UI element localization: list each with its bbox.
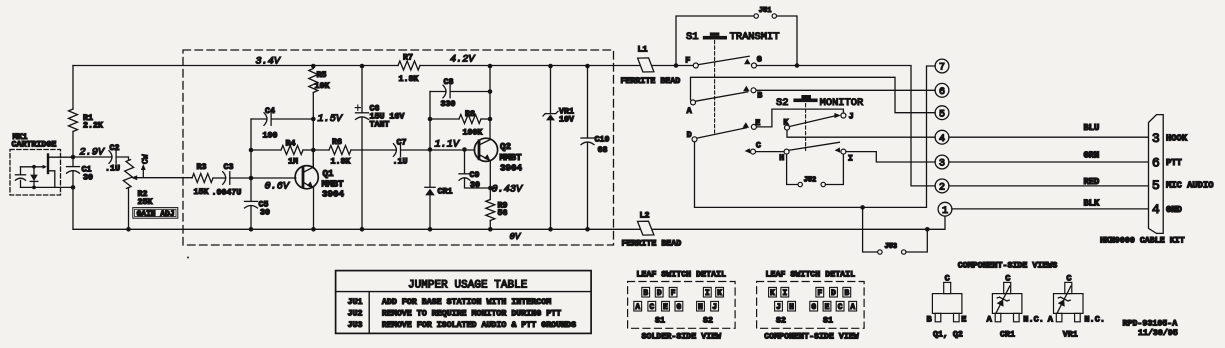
junction: R2 bottom on 0V rail — [126, 227, 131, 232]
capacitor C6 (+ polarity mark) — [356, 112, 369, 114]
svg-text:LEAF SWITCH DETAIL: LEAF SWITCH DETAIL — [636, 270, 726, 279]
junction: diode bottom inside MK1 — [32, 186, 36, 190]
junction: Q1 base node — [249, 176, 254, 181]
wire: vertical branch with R1/C1 from rail to 0V — [72, 66, 74, 230]
svg-text:J: J — [712, 304, 717, 312]
svg-text:Q2: Q2 — [500, 141, 511, 152]
svg-text:3: 3 — [939, 159, 945, 170]
svg-text:2: 2 — [939, 183, 945, 194]
wire: I to pad 3 / PTT — [846, 152, 935, 162]
svg-text:GND: GND — [1166, 205, 1182, 215]
junction: C6 bottom on rail — [360, 227, 365, 232]
svg-text:C10: C10 — [595, 136, 610, 145]
svg-text:F: F — [817, 290, 822, 298]
svg-text:3904: 3904 — [322, 189, 345, 200]
junction: CR1 bottom on 0V rail — [428, 227, 433, 232]
capacitor C1 — [67, 166, 80, 168]
svg-text:.1U: .1U — [105, 165, 120, 174]
svg-text:G: G — [677, 304, 682, 312]
svg-text:TRANSMIT: TRANSMIT — [730, 31, 780, 43]
svg-text:S2: S2 — [776, 317, 786, 326]
wire: cartridge internal top bus — [21, 166, 44, 168]
wire: R3 to C3 — [213, 177, 225, 179]
R2 CW direction arrow — [142, 167, 144, 177]
package view Q1,Q2 (SOT-23) — [932, 294, 962, 314]
svg-text:1.8K: 1.8K — [399, 75, 419, 84]
potentiometer R2 — [122, 159, 134, 189]
svg-text:330: 330 — [441, 100, 456, 109]
wire: Q2 collector vertical to 4.2V rail — [489, 66, 491, 140]
wire: Q1 emitter to 0V rail — [313, 188, 315, 230]
svg-text:.0047U: .0047U — [212, 189, 242, 198]
svg-text:RPD-93105-A: RPD-93105-A — [1123, 319, 1178, 328]
wire: C9 branch from base node — [465, 150, 491, 189]
wire: pad 2 to connector pin 5 (RED) — [949, 185, 1148, 187]
svg-text:Q1, Q2: Q1, Q2 — [933, 330, 963, 339]
wire: C4 right lead to 1.5V collector node — [271, 118, 313, 120]
wire: C7 to Q2 base — [401, 149, 475, 151]
svg-text:K: K — [717, 290, 722, 298]
svg-text:SOLDER-SIDE VIEW: SOLDER-SIDE VIEW — [642, 332, 722, 341]
capacitor C8 — [443, 85, 446, 98]
svg-text:1.8K: 1.8K — [331, 158, 351, 167]
svg-text:N.C.: N.C. — [1084, 314, 1105, 324]
pad 2 (circled) — [935, 179, 949, 193]
svg-text:JU1: JU1 — [759, 7, 772, 15]
component-side pin letters row 2 — [775, 301, 783, 311]
svg-text:.1U: .1U — [393, 158, 408, 167]
jumper usage table header separator — [336, 291, 591, 293]
svg-text:11/30/95: 11/30/95 — [1138, 328, 1178, 338]
wire: C to H — [756, 151, 784, 153]
junction: R4/R6 collector node — [311, 148, 316, 153]
contact E of S1 with arrow — [743, 122, 750, 128]
svg-text:S1: S1 — [686, 31, 698, 43]
svg-text:JUMPER USAGE TABLE: JUMPER USAGE TABLE — [408, 279, 527, 291]
capacitor C9 — [459, 173, 470, 175]
capacitor C3 — [223, 172, 226, 185]
transistor Q1 — [295, 166, 318, 189]
svg-text:CARTRIDGE: CARTRIDGE — [12, 141, 57, 150]
svg-text:3: 3 — [1152, 131, 1160, 146]
wire: C8 right lead — [450, 91, 490, 93]
svg-text:1: 1 — [942, 206, 948, 217]
wire: JU3 right leg to 0V rail — [906, 229, 927, 252]
svg-text:JU3: JU3 — [348, 321, 363, 330]
svg-text:G: G — [811, 304, 816, 312]
svg-text:5: 5 — [939, 109, 945, 120]
svg-text:C2: C2 — [110, 144, 120, 153]
svg-text:30: 30 — [260, 209, 270, 218]
S2 actuator dashed line — [805, 104, 807, 151]
contact F of S1 — [693, 63, 698, 68]
jumper usage table outer box — [336, 271, 591, 334]
package view VR1 (SOT-23 zener) — [1054, 294, 1084, 314]
wire: R8 left lead — [430, 118, 459, 120]
svg-text:S1: S1 — [655, 317, 665, 326]
svg-text:R5: R5 — [317, 71, 327, 80]
svg-text:G: G — [757, 55, 762, 65]
leaf switch detail dashed box (solder side) — [628, 282, 736, 329]
wire: C4 left lead — [251, 118, 267, 120]
jumper JU1 — [754, 14, 758, 18]
svg-text:J: J — [849, 112, 854, 122]
wire: R4 right lead — [303, 149, 313, 151]
contact J of S2 with arrow — [834, 113, 840, 118]
junction: Q2 emitter / C9 / R9 node — [488, 186, 493, 191]
diode CR1 — [425, 186, 435, 188]
svg-text:CR1: CR1 — [438, 187, 453, 196]
svg-text:HOOK: HOOK — [1166, 133, 1188, 143]
contact D of S1 — [692, 137, 697, 142]
svg-text:C3: C3 — [224, 163, 234, 172]
capacitor C7 — [393, 144, 396, 157]
contact G of S1 with arrow — [744, 59, 751, 65]
svg-text:C: C — [649, 304, 654, 312]
svg-text:MIC AUDIO: MIC AUDIO — [1166, 180, 1214, 190]
junction: R4 left on base branch — [249, 148, 254, 153]
wire: B to pad 6 — [756, 89, 935, 91]
S1 actuator dashed line — [714, 41, 716, 134]
junction: Q2 collector branch on rail — [488, 64, 493, 69]
svg-text:0.43V: 0.43V — [492, 184, 523, 195]
wire: Q2 emitter vertical — [489, 161, 491, 200]
svg-text:R7: R7 — [403, 54, 413, 63]
wire: top rail 4.2V segment from R7 to S1 contact F — [420, 65, 693, 67]
svg-text:100: 100 — [263, 132, 278, 141]
wire: 3.4V/4.2V top supply rail (left of R7) — [73, 65, 398, 67]
leaf switch detail dashed box (component side) — [757, 282, 865, 329]
wire: C2 to R2 top — [116, 157, 128, 160]
contact C of S1 with arrow — [745, 148, 751, 153]
junction: diode top inside MK1 — [32, 165, 36, 169]
svg-text:PTT: PTT — [1166, 158, 1183, 168]
svg-text:REMOVE FOR ISOLATED AUDIO & PT: REMOVE FOR ISOLATED AUDIO & PTT GROUNDS — [382, 321, 576, 330]
junction: C6 top on rail — [360, 64, 365, 69]
svg-text:10K: 10K — [315, 82, 330, 91]
jumper JU3 — [878, 250, 882, 254]
svg-text:JU2: JU2 — [348, 310, 363, 319]
svg-text:FERRITE BEAD: FERRITE BEAD — [621, 77, 681, 86]
wire: R4 left lead — [251, 149, 281, 151]
svg-text:6: 6 — [939, 87, 945, 98]
svg-text:S2: S2 — [703, 317, 713, 326]
svg-text:J: J — [776, 304, 781, 312]
svg-text:JU2: JU2 — [804, 176, 817, 184]
svg-text:MMBT: MMBT — [500, 152, 523, 163]
wire: R6 left lead — [313, 149, 329, 151]
svg-text:VR1: VR1 — [1063, 330, 1078, 339]
svg-text:S1: S1 — [823, 317, 833, 326]
svg-text:E: E — [663, 304, 668, 312]
svg-text:BLK: BLK — [1084, 199, 1101, 209]
svg-text:30: 30 — [83, 173, 93, 182]
wire: C6 vertical from 3.4V rail to 0V rail — [361, 66, 363, 229]
svg-text:GRN: GRN — [1084, 150, 1100, 160]
svg-text:C4: C4 — [265, 107, 275, 116]
svg-text:C: C — [1066, 274, 1071, 284]
svg-text:B: B — [757, 91, 762, 101]
junction: F branch / JU1 left — [674, 63, 679, 68]
svg-text:COMPONENT-SIDE VIEWS: COMPONENT-SIDE VIEWS — [958, 261, 1058, 270]
svg-text:D: D — [831, 290, 836, 298]
wire: pad 3 to connector pin 6 (GRN) — [949, 161, 1148, 163]
wire: pad 1 to connector pin 4 (BLK) — [952, 208, 1148, 210]
svg-text:GAIN ADJ: GAIN ADJ — [137, 210, 175, 219]
svg-text:K: K — [770, 290, 775, 298]
junction: R5 top on 3.4V rail — [311, 64, 316, 69]
wire: R9 bottom to 0V rail — [489, 221, 491, 230]
junction: G wire / JU1 right — [795, 63, 800, 68]
pad 4 (circled) — [935, 130, 949, 144]
junction: 2.9V node — [71, 155, 76, 160]
svg-text:A: A — [850, 304, 855, 312]
pad 3 (circled) — [935, 155, 949, 169]
svg-text:1.5V: 1.5V — [318, 114, 343, 125]
wire: C8/R8/CR1 branch vertical — [429, 92, 431, 230]
svg-text:D: D — [657, 290, 662, 298]
resistor R1 — [69, 109, 78, 132]
resistor R9 — [486, 200, 495, 221]
svg-text:D: D — [687, 130, 692, 140]
resistor R3 — [192, 174, 213, 183]
wire: JU1 loop left leg — [676, 16, 754, 66]
svg-text:C: C — [838, 304, 843, 312]
wire: H to JU2 left — [787, 154, 798, 184]
junction: cartridge return / C1 bottom — [71, 185, 76, 190]
zener diode VR1 — [546, 114, 555, 120]
svg-text:4.2V: 4.2V — [450, 54, 475, 65]
svg-text:C8: C8 — [444, 78, 454, 87]
svg-text:C: C — [1005, 274, 1010, 284]
svg-text:L1: L1 — [638, 46, 648, 55]
svg-text:C: C — [756, 141, 761, 151]
svg-text:CW: CW — [141, 154, 150, 164]
solder-side pin letters row 2 — [634, 301, 642, 311]
switch blade F-G — [698, 56, 749, 64]
wire: JU2 right to I — [826, 154, 844, 184]
transistor Q2 — [474, 138, 497, 161]
svg-text:F: F — [671, 290, 676, 298]
svg-text:E: E — [961, 314, 966, 324]
svg-text:CR1: CR1 — [1000, 330, 1015, 339]
pushbutton symbol S2 — [801, 95, 811, 99]
junction: Q1 emitter on 0V rail — [311, 227, 316, 232]
svg-text:I: I — [782, 290, 787, 298]
svg-text:68: 68 — [598, 146, 608, 155]
wire: R8 right lead — [481, 118, 490, 120]
ferrite bead L2 — [638, 221, 654, 235]
junction: R8 right on collector branch — [488, 117, 493, 122]
contact K of S2 — [785, 125, 790, 130]
svg-text:100K: 100K — [463, 129, 483, 138]
junction: R9 bottom on 0V rail — [488, 227, 493, 232]
diode element inside MK1 — [33, 167, 35, 188]
resistor R6 — [329, 146, 351, 155]
svg-text:B: B — [844, 290, 849, 298]
svg-text:FERRITE BEAD: FERRITE BEAD — [622, 239, 682, 248]
svg-text:L2: L2 — [640, 211, 650, 220]
wire: R2 wiper to R3 — [134, 177, 192, 179]
junction: VR1 bottom on 0V rail — [548, 227, 553, 232]
contact A of S1 — [691, 100, 696, 105]
resistor R8 — [459, 115, 481, 124]
wire: E to J link — [757, 109, 844, 127]
svg-text:30: 30 — [470, 181, 480, 190]
svg-text:6: 6 — [1152, 155, 1160, 170]
wire: R2 bottom to 0V rail — [128, 189, 130, 230]
wire: pad 4 to connector pin 3 (BLU) — [949, 136, 1148, 138]
junction: base wire / CR1 branch — [428, 147, 433, 152]
resistor R4 — [281, 146, 303, 155]
svg-text:A: A — [635, 304, 640, 312]
svg-text:B: B — [643, 290, 648, 298]
svg-text:C: C — [945, 274, 950, 284]
svg-text:ADD FOR BASE STATION WITH INTE: ADD FOR BASE STATION WITH INTERCOM — [382, 298, 551, 307]
capacitor C2 — [109, 151, 112, 164]
svg-text:I: I — [705, 290, 710, 298]
svg-text:COMPONENT-SIDE VIEW: COMPONENT-SIDE VIEW — [764, 332, 859, 341]
wire: C8 left lead — [430, 91, 446, 93]
junction: C10 bottom on 0V rail — [585, 227, 590, 232]
ferrite bead L1 — [638, 58, 654, 72]
wire: 0V bottom rail — [73, 216, 945, 229]
contact H of S2 — [784, 149, 789, 154]
svg-text:N.C.: N.C. — [1023, 314, 1044, 324]
pushbutton symbol S1 — [710, 32, 720, 36]
junction: C4/R5 1.5V node — [311, 117, 316, 122]
svg-text:HKN9000 CABLE KIT: HKN9000 CABLE KIT — [1100, 236, 1185, 245]
svg-text:R4: R4 — [286, 139, 296, 148]
svg-text:BLU: BLU — [1084, 123, 1100, 133]
svg-text:A: A — [1048, 314, 1054, 324]
svg-text:H: H — [779, 153, 784, 163]
svg-text:S2: S2 — [776, 97, 788, 109]
pad 1 (circled) — [938, 202, 952, 216]
wire: VR1 branch from rail to 0V — [550, 66, 552, 229]
wire: 2.9V node to C2 — [73, 156, 112, 158]
resistor R5 — [309, 69, 318, 93]
wire: JU3 left leg from switch-ground bus — [863, 207, 878, 252]
svg-text:4: 4 — [1152, 202, 1160, 217]
resistor R7 — [398, 61, 420, 70]
capacitor C10 — [581, 137, 594, 139]
svg-text:A: A — [987, 314, 993, 324]
svg-text:3904: 3904 — [500, 163, 523, 174]
svg-text:R3: R3 — [197, 163, 207, 172]
junction: C9 top on base wire — [462, 147, 467, 152]
svg-text:4: 4 — [939, 134, 945, 145]
svg-text:7: 7 — [939, 63, 945, 74]
svg-text:H: H — [698, 304, 703, 312]
svg-text:2.2K: 2.2K — [83, 121, 103, 130]
wire: C3 to Q1 base node — [230, 177, 296, 179]
wire: base-node vertical C4/R4/C5 branch — [250, 119, 252, 229]
svg-text:56: 56 — [498, 209, 508, 218]
svg-text:1.1V: 1.1V — [435, 139, 460, 150]
solder-side pin letters row 1 — [642, 287, 650, 297]
svg-text:MONITOR: MONITOR — [820, 97, 864, 109]
wire: K to pad 4 / HOOK — [787, 130, 935, 137]
wire: cartridge internal bottom bus to 0V node — [21, 186, 74, 188]
svg-text:B: B — [927, 314, 932, 324]
svg-text:JU1: JU1 — [348, 298, 363, 307]
svg-text:JU3: JU3 — [885, 243, 898, 251]
amplifier module dashed enclosure — [183, 50, 614, 245]
svg-text:C9: C9 — [470, 171, 480, 180]
switch blade D-E — [697, 128, 747, 138]
label GAIN ADJ box — [133, 208, 178, 219]
wire: G to pad7-corner then down to MIC AUDIO pad 2 — [757, 66, 936, 186]
svg-text:0V: 0V — [510, 232, 522, 242]
junction: C10 top on rail — [585, 64, 590, 69]
switch blade A-B — [696, 92, 748, 101]
wire: Q1 collector vertical — [312, 150, 314, 168]
svg-text:RED: RED — [1084, 177, 1100, 187]
junction: VR1 top on rail — [548, 64, 553, 69]
svg-text:I: I — [848, 153, 853, 163]
wire: R6 to C7 — [351, 149, 396, 151]
FET element inside MK1 — [47, 155, 49, 174]
wire: JU1 loop right leg — [777, 16, 797, 66]
svg-text:0.6V: 0.6V — [265, 181, 290, 192]
junction: R8 left — [428, 117, 433, 122]
svg-text:LEAF SWITCH DETAIL: LEAF SWITCH DETAIL — [766, 270, 856, 279]
wire: D to switch-ground bus and pad 7 — [695, 66, 936, 207]
svg-text:10V: 10V — [559, 116, 574, 125]
junction: C8 right on collector branch — [488, 89, 493, 94]
svg-text:R8: R8 — [465, 110, 475, 119]
svg-text:TANT: TANT — [370, 120, 390, 129]
svg-text:1M: 1M — [288, 158, 298, 167]
pad 5 (circled) — [935, 106, 949, 120]
capacitor C5 — [245, 200, 258, 202]
svg-text:5: 5 — [1152, 178, 1160, 193]
pad 7 (circled) — [935, 59, 949, 73]
capacitor C4 — [264, 113, 267, 126]
wire: C10 branch from rail to 0V — [587, 66, 589, 229]
contact I of S2 with arrow — [835, 147, 841, 152]
switch blade H-I — [789, 142, 839, 150]
connector shell (radio plug) — [1149, 115, 1164, 234]
package view CR1 (SOT-23 diode) — [992, 294, 1022, 314]
junction: JU3 right on 0V rail — [925, 227, 930, 232]
junction: JU3 tap on switch-ground bus — [860, 205, 865, 210]
svg-text:R6: R6 — [332, 138, 342, 147]
scan speck — [187, 257, 189, 259]
svg-text:H: H — [789, 304, 794, 312]
component-side pin letters row 1 — [769, 287, 777, 297]
wire: R5 bottom to collector node — [312, 93, 314, 168]
svg-text:15K: 15K — [194, 188, 209, 197]
wire: A to pad 5 — [691, 77, 936, 112]
capacitor element inside MK1 — [20, 167, 22, 188]
mic cartridge MK1 dashed enclosure — [10, 150, 61, 196]
jumper usage table column divider — [368, 292, 370, 334]
contact B of S1 with arrow — [743, 86, 750, 92]
svg-text:REMOVE TO REQUIRE MONITOR DURI: REMOVE TO REQUIRE MONITOR DURING PTT — [382, 310, 561, 319]
svg-text:25K: 25K — [138, 198, 153, 207]
jumper JU2 — [798, 182, 802, 186]
pad 6 (circled) — [935, 83, 949, 97]
switch blade K-J — [790, 116, 837, 127]
svg-text:E: E — [825, 304, 830, 312]
svg-text:F: F — [685, 55, 690, 65]
junction: C5 bottom on 0V rail — [249, 227, 254, 232]
svg-text:C7: C7 — [397, 139, 407, 148]
svg-text:3.4V: 3.4V — [256, 57, 281, 68]
